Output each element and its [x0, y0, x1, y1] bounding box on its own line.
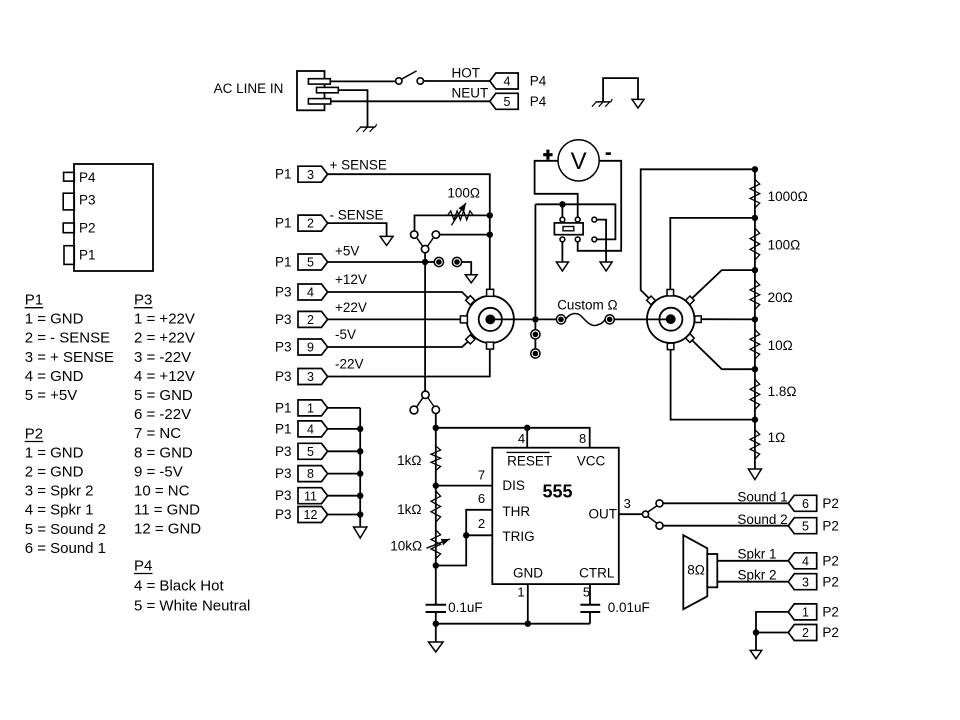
svg-text:P1: P1	[275, 421, 292, 436]
svg-text:TRIG: TRIG	[502, 529, 534, 544]
svg-text:11: 11	[304, 489, 317, 503]
svg-text:P3: P3	[275, 312, 292, 327]
svg-text:5: 5	[307, 256, 314, 270]
svg-text:1000Ω: 1000Ω	[768, 189, 808, 204]
svg-text:P2: P2	[822, 574, 839, 589]
svg-text:2: 2	[307, 313, 314, 327]
svg-text:4: 4	[307, 286, 314, 300]
svg-text:P2: P2	[822, 518, 839, 533]
svg-text:RESET: RESET	[507, 453, 552, 468]
svg-text:P4: P4	[530, 74, 547, 89]
svg-text:2 = GND: 2 = GND	[25, 464, 84, 481]
svg-text:Custom Ω: Custom Ω	[557, 298, 617, 313]
svg-text:3: 3	[802, 575, 809, 589]
svg-text:P1: P1	[275, 216, 292, 231]
svg-text:P3: P3	[275, 340, 292, 355]
svg-text:0.1uF: 0.1uF	[448, 600, 483, 615]
svg-text:4 = GND: 4 = GND	[25, 368, 84, 385]
svg-text:3: 3	[307, 168, 314, 182]
svg-text:4: 4	[307, 423, 314, 437]
svg-text:P1: P1	[25, 292, 43, 309]
svg-text:10kΩ: 10kΩ	[390, 539, 422, 554]
svg-text:4 = +12V: 4 = +12V	[134, 368, 195, 385]
svg-text:P1: P1	[79, 248, 96, 263]
svg-text:11 = GND: 11 = GND	[134, 502, 200, 519]
svg-text:-5V: -5V	[335, 327, 356, 342]
svg-text:6 = -22V: 6 = -22V	[134, 406, 191, 423]
svg-text:P1: P1	[275, 255, 292, 270]
svg-text:8Ω: 8Ω	[687, 562, 705, 577]
svg-text:DIS: DIS	[502, 478, 525, 493]
svg-text:20Ω: 20Ω	[768, 290, 793, 305]
svg-text:3 = Spkr 2: 3 = Spkr 2	[25, 483, 94, 500]
svg-text:8: 8	[307, 467, 314, 481]
svg-text:4: 4	[802, 554, 809, 568]
svg-text:+5V: +5V	[335, 244, 359, 259]
svg-text:5 = +5V: 5 = +5V	[25, 387, 78, 404]
svg-text:P2: P2	[822, 554, 839, 569]
svg-text:7: 7	[478, 468, 485, 483]
svg-text:+ SENSE: + SENSE	[330, 157, 387, 172]
svg-text:P2: P2	[79, 220, 96, 235]
svg-text:3 = + SENSE: 3 = + SENSE	[25, 349, 114, 366]
svg-text:10 = NC: 10 = NC	[134, 483, 190, 500]
svg-text:2 = +22V: 2 = +22V	[134, 330, 195, 347]
svg-text:2 = - SENSE: 2 = - SENSE	[25, 330, 110, 347]
svg-text:6: 6	[802, 497, 809, 511]
svg-text:5: 5	[802, 519, 809, 533]
svg-text:2: 2	[802, 626, 809, 640]
svg-text:1: 1	[802, 606, 809, 620]
svg-text:5: 5	[504, 95, 511, 109]
svg-text:100Ω: 100Ω	[447, 186, 480, 201]
svg-text:V: V	[571, 148, 587, 175]
svg-text:5: 5	[583, 585, 590, 600]
svg-text:3: 3	[307, 370, 314, 384]
svg-text:- SENSE: - SENSE	[330, 207, 384, 222]
svg-text:3: 3	[624, 496, 631, 511]
svg-text:Sound 2: Sound 2	[737, 512, 787, 527]
svg-text:4: 4	[504, 75, 511, 89]
svg-text:12: 12	[304, 508, 318, 522]
svg-text:1: 1	[517, 585, 524, 600]
svg-text:+22V: +22V	[335, 300, 367, 315]
svg-text:555: 555	[542, 481, 572, 501]
svg-text:4 = Black Hot: 4 = Black Hot	[134, 577, 224, 594]
svg-text:6: 6	[478, 491, 485, 506]
svg-text:P2: P2	[822, 496, 839, 511]
svg-text:5 = GND: 5 = GND	[134, 387, 193, 404]
svg-text:2: 2	[478, 516, 485, 531]
svg-text:P4: P4	[530, 94, 547, 109]
svg-text:NEUT: NEUT	[452, 86, 489, 101]
svg-text:GND: GND	[513, 566, 543, 581]
svg-text:100Ω: 100Ω	[768, 237, 801, 252]
svg-text:OUT: OUT	[589, 507, 618, 522]
svg-text:THR: THR	[502, 504, 530, 519]
svg-text:9 = -5V: 9 = -5V	[134, 463, 183, 480]
svg-text:1Ω: 1Ω	[768, 430, 786, 445]
svg-text:P3: P3	[275, 466, 292, 481]
svg-text:4 = Spkr 1: 4 = Spkr 1	[25, 502, 94, 519]
svg-text:1kΩ: 1kΩ	[397, 453, 421, 468]
svg-text:Spkr 1: Spkr 1	[738, 546, 777, 561]
svg-text:Spkr 2: Spkr 2	[738, 567, 777, 582]
svg-text:4: 4	[518, 431, 525, 446]
svg-text:1 = +22V: 1 = +22V	[134, 311, 195, 328]
svg-text:10Ω: 10Ω	[768, 338, 793, 353]
svg-text:AC LINE IN: AC LINE IN	[214, 81, 284, 96]
svg-text:HOT: HOT	[452, 66, 481, 81]
svg-text:1.8Ω: 1.8Ω	[768, 384, 797, 399]
svg-text:P2: P2	[822, 605, 839, 620]
svg-text:P3: P3	[275, 444, 292, 459]
svg-text:8: 8	[579, 431, 586, 446]
svg-text:P3: P3	[275, 488, 292, 503]
svg-text:5: 5	[307, 445, 314, 459]
svg-text:12 = GND: 12 = GND	[134, 521, 201, 538]
svg-text:P4: P4	[134, 557, 152, 574]
svg-text:P3: P3	[275, 507, 292, 522]
svg-text:P1: P1	[275, 167, 292, 182]
svg-text:6 = Sound 1: 6 = Sound 1	[25, 540, 106, 557]
svg-text:P2: P2	[25, 425, 43, 442]
svg-text:P3: P3	[275, 285, 292, 300]
svg-text:Sound 1: Sound 1	[737, 490, 787, 505]
svg-text:1kΩ: 1kΩ	[397, 502, 421, 517]
svg-text:VCC: VCC	[577, 453, 606, 468]
svg-text:3 = -22V: 3 = -22V	[134, 349, 191, 366]
svg-text:-22V: -22V	[335, 357, 364, 372]
svg-text:0.01uF: 0.01uF	[608, 600, 650, 615]
svg-text:5 = Sound 2: 5 = Sound 2	[25, 521, 106, 538]
svg-text:P4: P4	[79, 170, 96, 185]
svg-text:8 = GND: 8 = GND	[134, 444, 193, 461]
svg-text:7 = NC: 7 = NC	[134, 425, 181, 442]
svg-text:1 = GND: 1 = GND	[25, 444, 84, 461]
svg-text:P3: P3	[134, 292, 152, 309]
svg-text:CTRL: CTRL	[579, 566, 615, 581]
svg-text:1 = GND: 1 = GND	[25, 311, 84, 328]
svg-text:P1: P1	[275, 400, 292, 415]
svg-text:+12V: +12V	[335, 272, 367, 287]
svg-text:2: 2	[307, 217, 314, 231]
svg-text:P3: P3	[275, 369, 292, 384]
svg-text:P3: P3	[79, 193, 96, 208]
svg-text:5 = White Neutral: 5 = White Neutral	[134, 597, 250, 614]
svg-text:P2: P2	[822, 625, 839, 640]
svg-text:9: 9	[307, 341, 314, 355]
svg-text:1: 1	[307, 402, 314, 416]
